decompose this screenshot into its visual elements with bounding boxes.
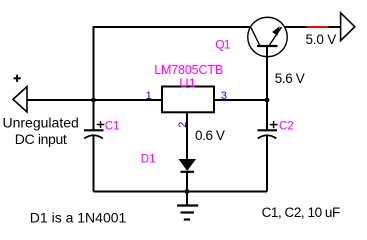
capacitor C1 bbox=[84, 100, 104, 192]
diode D1 bbox=[180, 160, 196, 172]
wire: Q1 emitter to output bbox=[285, 26, 307, 28]
svg-text:C1, C2, 10 uF: C1, C2, 10 uF bbox=[262, 205, 340, 220]
label: + polarity at input bbox=[14, 75, 21, 82]
svg-text:Unregulated: Unregulated bbox=[3, 114, 79, 130]
transistor Q1 bbox=[248, 17, 288, 57]
svg-text:5.6 V: 5.6 V bbox=[275, 71, 305, 86]
label: C2 plus bbox=[270, 121, 278, 128]
svg-text:1: 1 bbox=[146, 90, 152, 102]
label: C1 plus bbox=[97, 121, 105, 128]
svg-text:5.0 V: 5.0 V bbox=[306, 32, 337, 47]
svg-text:D1 is a 1N4001: D1 is a 1N4001 bbox=[30, 209, 127, 225]
svg-text:C2: C2 bbox=[279, 121, 294, 133]
wire: Q1 base drop bbox=[266, 46, 268, 100]
wire: bottom rail bbox=[94, 191, 268, 193]
svg-text:Q1: Q1 bbox=[215, 37, 231, 51]
wire: U1 pin 3 to base node bbox=[214, 99, 267, 101]
svg-text:U1: U1 bbox=[179, 76, 196, 91]
wire: to output port bbox=[328, 26, 341, 28]
wire: mid rail from input port to U1 pin 1 bbox=[27, 99, 163, 101]
input port connector bbox=[13, 87, 27, 112]
node: base junction dot bbox=[265, 98, 270, 103]
ground bbox=[177, 192, 198, 220]
wire: highlighted red segment bbox=[307, 26, 328, 28]
svg-text:C1: C1 bbox=[105, 120, 120, 132]
svg-text:0.6 V: 0.6 V bbox=[195, 128, 225, 143]
wire: riser and top rail from input node to Q1 collector bbox=[94, 27, 251, 100]
node: ground junction dot bbox=[185, 189, 190, 194]
node: input junction dot bbox=[91, 98, 96, 103]
svg-text:D1: D1 bbox=[141, 153, 156, 165]
capacitor C2 bbox=[258, 100, 278, 192]
output port connector bbox=[341, 13, 355, 41]
wire: U1 pin 2 to D1 anode bbox=[186, 112, 188, 160]
svg-text:DC input: DC input bbox=[15, 131, 67, 147]
wire: D1 cathode to ground rail bbox=[186, 172, 188, 192]
regulator U1 box bbox=[162, 87, 214, 113]
